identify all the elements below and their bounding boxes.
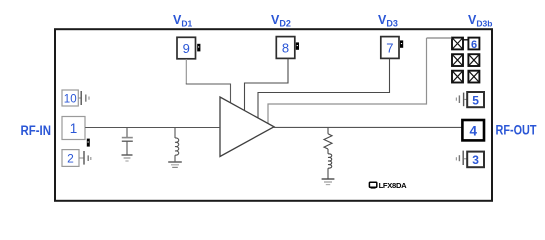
pin 6 — [468, 38, 479, 51]
pin 7 tiny name glyph — [400, 40, 403, 47]
op-amp A1 — [220, 97, 274, 157]
wire RF input line — [85, 127, 220, 129]
outer boundary of IC — [55, 29, 492, 201]
svg-text:5: 5 — [472, 93, 479, 107]
pin 9 — [177, 37, 196, 59]
pin 1 — [62, 117, 85, 140]
svg-text:8: 8 — [282, 40, 289, 55]
wire grid stub — [427, 37, 453, 39]
svg-text:10: 10 — [64, 93, 77, 105]
svg-text:3: 3 — [472, 153, 479, 167]
manufacturer logo LFX8DA — [369, 181, 407, 190]
pin 7 — [381, 37, 399, 59]
wire pin7 to amplifier — [258, 59, 390, 119]
wire bridge grid to pin 6 — [463, 39, 468, 41]
pin 4 — [462, 120, 484, 140]
pin 5 — [467, 92, 484, 107]
wire RF output line — [273, 126, 462, 128]
capacitor at pin 2 — [79, 151, 91, 165]
shunt inductor L1 on input — [175, 128, 179, 162]
svg-text:6: 6 — [471, 39, 477, 51]
svg-text:2: 2 — [67, 152, 74, 166]
svg-text:4: 4 — [470, 124, 478, 139]
wire pin9 to amplifier — [185, 59, 187, 84]
pin 9 tiny name glyph — [197, 44, 200, 52]
wire VD3b feedback to output — [268, 38, 427, 127]
svg-text:LFX8DA: LFX8DA — [379, 181, 408, 190]
capacitor at pin 10 — [78, 91, 89, 105]
pin 1 tiny name glyph — [87, 139, 90, 147]
wire pin8 to amplifier — [245, 59, 289, 111]
capacitor at pin 3 — [456, 151, 467, 165]
ground under R1/L2 — [322, 179, 335, 185]
pin 3 — [467, 152, 484, 168]
ground under C1 — [122, 155, 133, 161]
ground under L1 — [168, 162, 182, 167]
shunt capacitor C1 on input — [122, 128, 133, 155]
svg-text:9: 9 — [183, 41, 190, 56]
pin 10 — [62, 90, 78, 106]
capacitor at pin 5 — [456, 93, 467, 107]
pin 8 — [276, 37, 295, 59]
svg-text:RF-OUT: RF-OUT — [496, 123, 538, 138]
svg-text:1: 1 — [70, 121, 78, 136]
pin 8 tiny name glyph — [296, 42, 299, 49]
series inductor L2 on output shunt — [328, 149, 332, 179]
shunt resistor R1 on output — [324, 127, 332, 149]
bypass capacitor grid VD3b (5 X-capacitors) — [452, 38, 479, 83]
pin 2 — [62, 150, 79, 167]
svg-text:7: 7 — [386, 40, 393, 55]
svg-text:RF-IN: RF-IN — [21, 123, 52, 138]
